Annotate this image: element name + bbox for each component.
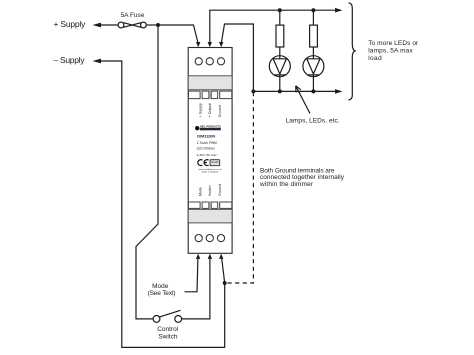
wire R2 to LED2 bbox=[312, 47, 314, 59]
svg-text:Made in England: Made in England bbox=[202, 172, 219, 174]
RoHS mark bbox=[210, 160, 220, 166]
svg-text:RoHS: RoHS bbox=[211, 160, 218, 164]
wire +Output terminal to top rail bbox=[210, 10, 335, 42]
svg-text:+ Supply: + Supply bbox=[54, 19, 87, 29]
arrow + Supply bbox=[93, 23, 102, 28]
module screw row top bbox=[189, 91, 232, 99]
svg-text:LED Dimmer: LED Dimmer bbox=[197, 146, 216, 150]
svg-text:Switch: Switch bbox=[158, 333, 178, 340]
logo bbox=[195, 125, 221, 131]
svg-text:Switch: Switch bbox=[208, 185, 212, 196]
node top rail branch 2 bbox=[311, 8, 315, 12]
arrow to more LEDs top bbox=[335, 8, 343, 13]
svg-text:9-32V, 5A max: 9-32V, 5A max bbox=[197, 153, 217, 157]
module bottom terminal circles bbox=[195, 235, 225, 242]
svg-text:load: load bbox=[368, 55, 382, 62]
svg-text:Ground: Ground bbox=[218, 105, 222, 117]
wire junction down to switch bbox=[136, 25, 158, 319]
LED D1 bbox=[269, 56, 290, 77]
resistor R2 bbox=[310, 25, 318, 47]
svg-text:1-Touch PWM: 1-Touch PWM bbox=[197, 141, 217, 145]
LED D2 bbox=[303, 56, 324, 77]
svg-text:DIM11DIN: DIM11DIN bbox=[197, 133, 215, 138]
node ground wire junction bbox=[223, 281, 227, 285]
wire R1 to LED1 bbox=[279, 47, 281, 59]
wire + supply to fuse bbox=[100, 24, 118, 26]
svg-text:Mode: Mode bbox=[198, 187, 202, 196]
svg-text:Ground: Ground bbox=[218, 184, 222, 196]
wire branch 2 top bbox=[312, 10, 314, 25]
arrow into Switch terminal bbox=[208, 254, 212, 259]
arrow into bottom Ground terminal bbox=[219, 254, 223, 259]
wire LED2 to bottom rail bbox=[312, 75, 314, 92]
node bottom rail junction bbox=[251, 89, 255, 93]
fuse F1 bbox=[118, 22, 146, 28]
module grey band top bbox=[188, 76, 232, 90]
wire - supply to ground node bbox=[100, 61, 225, 347]
svg-text:5A Fuse: 5A Fuse bbox=[121, 12, 145, 19]
arrow into +Supply terminal bbox=[196, 42, 200, 47]
arrow into Ground terminal bbox=[219, 42, 223, 47]
node bottom rail branch 1 bbox=[278, 89, 282, 93]
arrow - Supply bbox=[93, 59, 102, 64]
arrow into Mode terminal bbox=[196, 254, 200, 259]
wire bottom LED rail bbox=[253, 90, 335, 92]
svg-text:+ Output: + Output bbox=[208, 103, 212, 117]
wire mode to Mode terminal bbox=[185, 258, 198, 291]
svg-text:(See Text): (See Text) bbox=[148, 290, 176, 297]
switch S1 control switch bbox=[153, 310, 182, 322]
svg-text:To more LEDs or: To more LEDs or bbox=[368, 40, 419, 47]
wire fuse to junction bbox=[146, 24, 158, 26]
module top terminal circles bbox=[195, 58, 225, 65]
wire LED1 to bottom rail bbox=[279, 75, 281, 92]
dimmer module DM11DIN outline bbox=[188, 48, 232, 254]
wire switch to Switch terminal bbox=[182, 258, 210, 319]
module screw row bottom bbox=[189, 202, 232, 208]
node top rail branch 1 bbox=[278, 8, 282, 12]
wire ground node to Ground terminal bbox=[222, 258, 225, 283]
arrow lamps label bbox=[296, 86, 310, 114]
resistor R1 bbox=[276, 25, 284, 47]
wire Ground terminal up and right bbox=[221, 24, 253, 91]
node fuse output junction bbox=[156, 23, 160, 27]
svg-text:Lamps, LEDs, etc.: Lamps, LEDs, etc. bbox=[286, 117, 340, 124]
node bottom rail branch 2 bbox=[311, 89, 315, 93]
wire junction to +Supply terminal bbox=[158, 25, 198, 43]
svg-text:www.meldimmers.co.uk: www.meldimmers.co.uk bbox=[199, 168, 223, 171]
arrow to more LEDs bottom bbox=[335, 89, 343, 94]
brace to more LEDs bbox=[349, 3, 356, 100]
svg-text:lamps. 5A max: lamps. 5A max bbox=[368, 48, 413, 55]
svg-text:Control: Control bbox=[157, 326, 179, 333]
CE mark bbox=[198, 160, 209, 166]
wire branch 1 top bbox=[279, 10, 281, 25]
svg-text:– Supply: – Supply bbox=[54, 55, 86, 65]
svg-text:within the dimmer: within the dimmer bbox=[259, 181, 314, 188]
module grey band bottom bbox=[188, 209, 232, 223]
arrow into +Output terminal bbox=[208, 42, 212, 47]
dashed wire ground link bbox=[228, 94, 254, 284]
svg-text:+ Supply: + Supply bbox=[198, 103, 202, 117]
